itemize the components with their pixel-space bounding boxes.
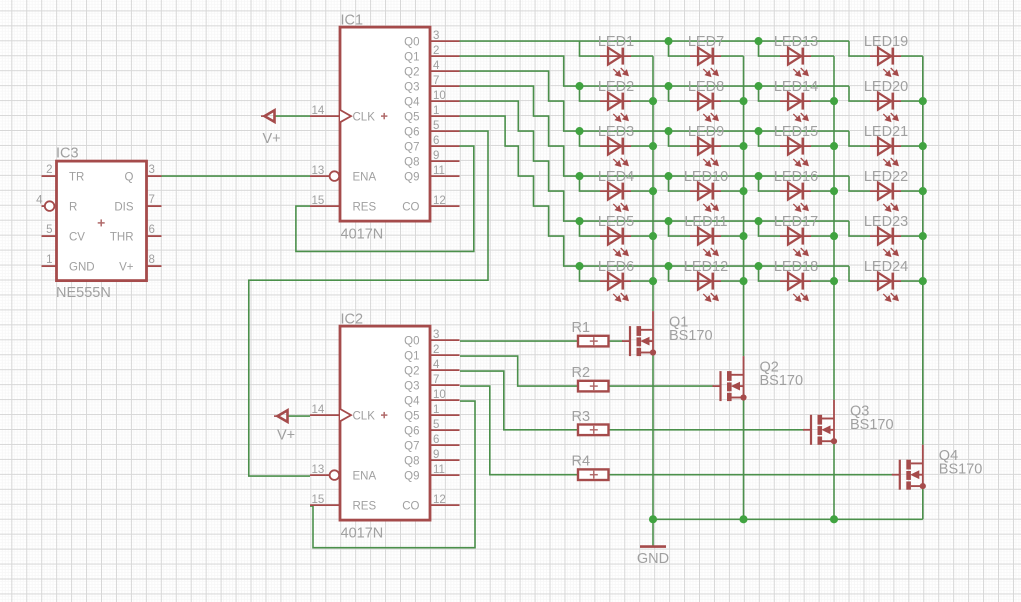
label Q4 xyxy=(939,448,958,464)
IC1 pin 7 (Q3) stub xyxy=(430,85,460,87)
svg-text:2: 2 xyxy=(46,164,52,176)
svg-text:Q4: Q4 xyxy=(404,395,420,407)
svg-text:5: 5 xyxy=(433,419,439,431)
IC2 pin 2 (Q1) stub xyxy=(430,354,460,356)
pin number 2 xyxy=(433,344,439,356)
svg-text:10: 10 xyxy=(433,389,446,401)
svg-text:Q2: Q2 xyxy=(404,365,419,377)
pin number 13 xyxy=(312,464,325,476)
svg-text:R2: R2 xyxy=(572,365,591,381)
pin number 13 xyxy=(312,165,325,177)
svg-text:LED19: LED19 xyxy=(864,34,908,50)
wire net N$1 (IC3 Q to IC1 ENA) xyxy=(162,175,311,177)
label IC3 xyxy=(56,146,79,162)
svg-text:R1: R1 xyxy=(572,320,591,336)
supply symbol V+ (IC1 clock) xyxy=(261,110,275,122)
svg-text:ENA: ENA xyxy=(353,171,377,183)
label LED2 xyxy=(598,79,634,95)
pin name CLK xyxy=(353,111,376,123)
pin 6 (THR) stub xyxy=(147,235,162,237)
pin name CO xyxy=(402,500,419,512)
label Q2 xyxy=(760,360,779,376)
svg-text:3: 3 xyxy=(433,30,439,42)
pin name V+ xyxy=(119,262,134,274)
pin name Q7 xyxy=(404,440,419,452)
pin name CV xyxy=(69,232,85,244)
pin number 6 xyxy=(433,135,439,147)
svg-text:R: R xyxy=(69,202,77,214)
svg-text:4017N: 4017N xyxy=(341,227,384,243)
pin name Q0 xyxy=(404,335,419,347)
IC1 pin 9 (Q8) stub xyxy=(430,160,460,162)
IC2 pin 7 (Q3) stub xyxy=(430,384,460,386)
svg-text:11: 11 xyxy=(433,464,445,476)
label LED1 xyxy=(598,34,634,50)
wire net COL1 (LED column 1 cathodes to Q1 drain) xyxy=(631,56,657,311)
pin number 11 xyxy=(433,464,445,476)
label LED20 xyxy=(864,79,908,95)
label Q1 xyxy=(669,315,688,331)
label LED18 xyxy=(774,259,818,275)
pin name Q7 xyxy=(404,141,419,153)
pin number 15 xyxy=(312,494,325,506)
pin number 11 xyxy=(433,165,445,177)
pin number 12 xyxy=(433,195,446,207)
wire net N$2 (IC1 Q7 pin6 to IC1 RES pin15) xyxy=(296,146,474,251)
svg-text:BS170: BS170 xyxy=(939,462,983,478)
LED LED17 xyxy=(780,228,811,257)
IC1 pin 6 (Q7) stub xyxy=(430,145,460,147)
label LED17 xyxy=(774,214,818,230)
pin name Q6 xyxy=(404,425,419,437)
pin name R xyxy=(69,202,77,214)
IC1 pin 4 (Q2) stub xyxy=(430,70,460,72)
IC2 pin 11 (Q9) stub xyxy=(430,474,460,476)
svg-text:Q1: Q1 xyxy=(404,350,419,362)
label R2 xyxy=(572,365,591,381)
pin 8 (V+) stub xyxy=(147,265,162,267)
svg-text:GND: GND xyxy=(637,551,669,567)
svg-text:LED10: LED10 xyxy=(684,169,728,185)
svg-text:9: 9 xyxy=(433,150,439,162)
pin name Q xyxy=(125,172,134,184)
svg-text:RES: RES xyxy=(353,500,377,512)
label LED14 xyxy=(774,79,818,95)
LED LED10 xyxy=(690,183,721,212)
pin name Q9 xyxy=(404,171,419,183)
IC1 pin 5 (Q6) stub xyxy=(430,130,460,132)
resistor R2 xyxy=(578,381,609,392)
label LED12 xyxy=(684,259,728,275)
pin name GND xyxy=(69,262,95,274)
IC2 pin 14 (CLK) stub and clock wedge xyxy=(310,409,351,421)
svg-text:Q2: Q2 xyxy=(404,66,419,78)
svg-text:LED24: LED24 xyxy=(864,259,908,275)
label IC2 xyxy=(341,312,364,328)
IC2 pin 6 (Q7) stub xyxy=(430,444,460,446)
svg-text:13: 13 xyxy=(312,464,325,476)
svg-text:4: 4 xyxy=(433,60,440,72)
svg-text:Q6: Q6 xyxy=(404,126,419,138)
svg-text:CV: CV xyxy=(69,232,85,244)
pin name RES xyxy=(353,201,377,213)
transistor Q4 BS170 n-mosfet xyxy=(892,445,926,490)
svg-text:14: 14 xyxy=(312,404,325,416)
pin name THR xyxy=(110,232,134,244)
pin name CO xyxy=(402,201,419,213)
label R3 xyxy=(572,409,591,425)
wire net ROW2 (IC1 Q1 to LED row 2 anodes) xyxy=(460,56,871,101)
LED LED6 xyxy=(600,273,631,302)
LED LED11 xyxy=(690,228,721,257)
svg-text:LED21: LED21 xyxy=(864,124,908,140)
svg-text:2: 2 xyxy=(433,45,439,57)
svg-text:LED8: LED8 xyxy=(688,79,724,95)
svg-text:LED5: LED5 xyxy=(598,214,634,230)
label LED5 xyxy=(598,214,634,230)
pin name RES xyxy=(353,500,377,512)
IC2 pin 12 (CO) stub xyxy=(430,504,460,506)
pin number 2 xyxy=(46,164,52,176)
svg-text:GND: GND xyxy=(69,262,95,274)
pin name CLK xyxy=(353,410,376,422)
svg-text:BS170: BS170 xyxy=(850,417,894,433)
IC1 pin 11 (Q9) stub xyxy=(430,175,460,177)
pin number 7 xyxy=(149,194,155,206)
pin 4 (R) stub with inversion bubble xyxy=(42,201,55,211)
pin name Q1 xyxy=(404,51,419,63)
pin name Q8 xyxy=(404,455,419,467)
pin number 5 xyxy=(46,224,52,236)
svg-text:TR: TR xyxy=(69,172,84,184)
pin name Q6 xyxy=(404,126,419,138)
label LED8 xyxy=(688,79,724,95)
pin number 9 xyxy=(433,449,439,461)
IC2 pin 15 (RES) stub xyxy=(310,504,340,506)
svg-text:1: 1 xyxy=(46,254,52,266)
pin 1 (GND) stub xyxy=(42,265,57,267)
svg-text:LED4: LED4 xyxy=(598,169,634,185)
svg-text:LED15: LED15 xyxy=(774,124,818,140)
svg-text:LED2: LED2 xyxy=(598,79,634,95)
IC IC1 4017N decade counter box xyxy=(340,27,430,221)
pin number 4 xyxy=(433,60,440,72)
svg-text:CO: CO xyxy=(402,201,419,213)
label V+ xyxy=(277,428,295,444)
wire net ROW3 (IC1 Q2 to LED row 3 anodes) xyxy=(460,71,871,146)
wire net N$6 (IC2 Q1 to R2) xyxy=(460,356,578,386)
wire net ROW4 (IC1 Q3 to LED row 4 anodes) xyxy=(460,86,871,191)
svg-text:CLK: CLK xyxy=(353,410,376,422)
value 4017N xyxy=(341,526,384,542)
svg-text:1: 1 xyxy=(433,105,439,117)
LED LED8 xyxy=(690,93,721,122)
svg-text:11: 11 xyxy=(433,165,445,177)
wire net N$5 (IC2 Q0 to R1) xyxy=(460,340,578,342)
svg-text:R4: R4 xyxy=(572,454,591,470)
svg-text:9: 9 xyxy=(433,449,439,461)
LED LED4 xyxy=(600,183,631,212)
pin number 12 xyxy=(433,494,446,506)
svg-text:V+: V+ xyxy=(119,262,134,274)
svg-text:LED9: LED9 xyxy=(688,124,724,140)
svg-text:BS170: BS170 xyxy=(669,328,713,344)
label LED22 xyxy=(864,169,908,185)
label LED9 xyxy=(688,124,724,140)
resistor R1 xyxy=(578,336,609,347)
wire net N$4 (IC2 Q4 pin10 to IC2 RES pin15) xyxy=(310,401,475,548)
svg-text:IC1: IC1 xyxy=(341,13,364,29)
wire net GND (MOSFET sources to ground rail) xyxy=(649,353,923,546)
pin name Q5 xyxy=(404,111,419,123)
pin name TR xyxy=(69,172,84,184)
pin name Q9 xyxy=(404,470,419,482)
svg-text:13: 13 xyxy=(312,165,325,177)
IC2 clock origin cross xyxy=(381,412,387,418)
svg-text:LED1: LED1 xyxy=(598,34,634,50)
resistor R4 xyxy=(578,469,609,480)
pin name Q0 xyxy=(404,36,419,48)
pin name Q1 xyxy=(404,350,419,362)
IC1 clock origin cross xyxy=(381,113,387,119)
pin name Q4 xyxy=(404,96,420,108)
svg-text:V+: V+ xyxy=(263,131,281,147)
LED LED5 xyxy=(600,228,631,257)
pin number 1 xyxy=(46,254,52,266)
pin number 6 xyxy=(149,224,155,236)
svg-text:LED20: LED20 xyxy=(864,79,908,95)
pin number 10 xyxy=(433,389,446,401)
svg-text:5: 5 xyxy=(46,224,52,236)
svg-text:RES: RES xyxy=(353,201,377,213)
pin number 2 xyxy=(433,45,439,57)
svg-text:LED16: LED16 xyxy=(774,169,818,185)
svg-text:15: 15 xyxy=(312,195,325,207)
svg-text:5: 5 xyxy=(433,120,439,132)
svg-text:ENA: ENA xyxy=(353,470,377,482)
pin number 7 xyxy=(433,75,439,87)
wire net COL4 (LED column 4 cathodes to Q4 drain) xyxy=(901,56,927,445)
wire net COL2 (LED column 2 cathodes to Q2 drain) xyxy=(721,56,748,356)
IC IC2 4017N decade counter box xyxy=(340,326,430,520)
svg-text:LED23: LED23 xyxy=(864,214,908,230)
svg-text:4017N: 4017N xyxy=(341,526,384,542)
pin number 4 xyxy=(433,359,440,371)
pin name Q5 xyxy=(404,410,419,422)
pin 7 (DIS) stub xyxy=(147,205,162,207)
pin name Q2 xyxy=(404,365,419,377)
svg-text:R3: R3 xyxy=(572,409,591,425)
svg-text:LED3: LED3 xyxy=(598,124,634,140)
svg-text:LED7: LED7 xyxy=(688,34,724,50)
svg-text:Q8: Q8 xyxy=(404,455,419,467)
svg-text:V+: V+ xyxy=(277,428,295,444)
svg-text:Q3: Q3 xyxy=(404,380,419,392)
wire net N$3 (IC1 Q6 pin5 to IC2 ENA pin13) xyxy=(249,131,488,476)
pin number 7 xyxy=(433,374,439,386)
svg-text:4: 4 xyxy=(433,359,440,371)
pin name ENA xyxy=(353,171,377,183)
pin number 5 xyxy=(433,120,439,132)
label IC1 xyxy=(341,13,364,29)
svg-text:LED18: LED18 xyxy=(774,259,818,275)
svg-text:7: 7 xyxy=(433,374,439,386)
svg-text:10: 10 xyxy=(433,90,446,102)
wire net V+ (supply arrow to IC2 CLK) xyxy=(288,415,311,417)
label LED16 xyxy=(774,169,818,185)
svg-text:LED12: LED12 xyxy=(684,259,728,275)
svg-text:DIS: DIS xyxy=(114,202,134,214)
label LED4 xyxy=(598,169,634,185)
IC2 pin 13 (ENA) stub with inversion bubble xyxy=(310,470,339,480)
pin number 6 xyxy=(433,434,439,446)
svg-text:LED14: LED14 xyxy=(774,79,818,95)
svg-text:15: 15 xyxy=(312,494,325,506)
LED LED15 xyxy=(780,138,811,167)
label GND xyxy=(637,551,669,567)
label LED7 xyxy=(688,34,724,50)
LED LED9 xyxy=(690,138,721,167)
svg-text:14: 14 xyxy=(312,105,325,117)
svg-text:CLK: CLK xyxy=(353,111,376,123)
LED LED7 xyxy=(690,48,721,77)
LED LED22 xyxy=(870,183,901,212)
svg-text:1: 1 xyxy=(433,404,439,416)
svg-text:Q0: Q0 xyxy=(404,36,419,48)
LED LED14 xyxy=(780,93,811,122)
value BS170 xyxy=(669,328,713,344)
svg-text:LED17: LED17 xyxy=(774,214,818,230)
pin number 3 xyxy=(433,329,439,341)
IC2 pin 9 (Q8) stub xyxy=(430,459,460,461)
IC3 origin cross xyxy=(98,219,105,226)
svg-text:8: 8 xyxy=(149,254,155,266)
value NE555N xyxy=(56,285,111,301)
pin number 10 xyxy=(433,90,446,102)
LED LED1 xyxy=(600,48,631,77)
svg-text:6: 6 xyxy=(149,224,155,236)
IC1 pin 13 (ENA) stub with inversion bubble xyxy=(310,171,339,181)
pin 3 (Q) stub xyxy=(147,175,162,177)
pin name Q4 xyxy=(404,395,420,407)
value BS170 xyxy=(760,373,804,389)
pin name ENA xyxy=(353,470,377,482)
label LED24 xyxy=(864,259,908,275)
pin number 8 xyxy=(149,254,155,266)
label LED13 xyxy=(774,34,818,50)
svg-text:LED6: LED6 xyxy=(598,259,634,275)
svg-text:CO: CO xyxy=(402,500,419,512)
wire net N$12 (R4 to Q4 gate) xyxy=(609,474,893,476)
svg-text:Q9: Q9 xyxy=(404,171,419,183)
IC2 pin 10 (Q4) stub xyxy=(430,399,460,401)
IC1 pin 12 (CO) stub xyxy=(430,205,460,207)
LED LED24 xyxy=(870,273,901,302)
value BS170 xyxy=(939,462,983,478)
pin name DIS xyxy=(114,202,134,214)
svg-text:Q5: Q5 xyxy=(404,111,419,123)
pin number 3 xyxy=(433,30,439,42)
svg-text:Q7: Q7 xyxy=(404,440,419,452)
label LED6 xyxy=(598,259,634,275)
IC1 pin 15 (RES) stub xyxy=(310,205,340,207)
svg-text:IC3: IC3 xyxy=(56,146,79,162)
pin name Q3 xyxy=(404,81,419,93)
pin number 3 xyxy=(149,164,155,176)
svg-text:Q3: Q3 xyxy=(404,81,419,93)
pin name Q2 xyxy=(404,66,419,78)
pin 5 (CV) stub xyxy=(42,235,57,237)
wire net N$10 (R2 to Q2 gate) xyxy=(609,385,714,387)
svg-text:LED13: LED13 xyxy=(774,34,818,50)
supply symbol V+ (IC2 clock) xyxy=(274,410,288,422)
IC1 pin 3 (Q0) stub xyxy=(430,40,460,42)
svg-text:Q: Q xyxy=(125,172,134,184)
pin number 4 xyxy=(36,194,43,206)
op-amp/timer IC3 NE555N box xyxy=(57,161,147,281)
wire net N$7 (IC2 Q2 to R3) xyxy=(460,371,578,430)
svg-text:Q5: Q5 xyxy=(404,410,419,422)
IC1 pin 14 (CLK) stub and clock wedge xyxy=(310,110,351,122)
label R4 xyxy=(572,454,591,470)
wire net ROW6 (IC1 Q5 to LED row 6 anodes) xyxy=(460,116,871,281)
LED LED12 xyxy=(690,273,721,302)
svg-text:3: 3 xyxy=(433,329,439,341)
pin number 1 xyxy=(433,404,439,416)
svg-text:NE555N: NE555N xyxy=(56,285,111,301)
LED LED18 xyxy=(780,273,811,302)
LED LED23 xyxy=(870,228,901,257)
IC1 pin 1 (Q5) stub xyxy=(430,115,460,117)
label Q3 xyxy=(850,403,869,419)
svg-text:Q6: Q6 xyxy=(404,425,419,437)
transistor Q1 BS170 n-mosfet xyxy=(622,311,656,356)
pin number 1 xyxy=(433,105,439,117)
value BS170 xyxy=(850,417,894,433)
pin number 9 xyxy=(433,150,439,162)
pin 2 (TR) stub xyxy=(42,175,57,177)
pin name Q3 xyxy=(404,380,419,392)
svg-text:THR: THR xyxy=(110,232,134,244)
svg-text:Q4: Q4 xyxy=(404,96,420,108)
svg-text:12: 12 xyxy=(433,494,446,506)
wire net N$8 (IC2 Q3 to R4) xyxy=(460,386,578,475)
pin number 14 xyxy=(312,404,325,416)
value 4017N xyxy=(341,227,384,243)
svg-text:4: 4 xyxy=(36,194,43,206)
svg-text:Q1: Q1 xyxy=(404,51,419,63)
pin number 14 xyxy=(312,105,325,117)
label LED15 xyxy=(774,124,818,140)
LED LED13 xyxy=(780,48,811,77)
wire net V+ (supply arrow to IC1 CLK) xyxy=(275,115,311,117)
svg-text:Q8: Q8 xyxy=(404,156,419,168)
svg-text:7: 7 xyxy=(433,75,439,87)
pin number 5 xyxy=(433,419,439,431)
svg-text:IC2: IC2 xyxy=(341,312,364,328)
label R1 xyxy=(572,320,591,336)
svg-text:12: 12 xyxy=(433,195,446,207)
wire net ROW5 (IC1 Q4 to LED row 5 anodes) xyxy=(460,101,871,236)
IC2 pin 4 (Q2) stub xyxy=(430,369,460,371)
svg-text:Q0: Q0 xyxy=(404,335,419,347)
svg-text:6: 6 xyxy=(433,434,439,446)
LED LED19 xyxy=(870,48,901,77)
IC2 pin 1 (Q5) stub xyxy=(430,414,460,416)
svg-text:BS170: BS170 xyxy=(760,373,804,389)
svg-text:Q9: Q9 xyxy=(404,470,419,482)
pin number 15 xyxy=(312,195,325,207)
